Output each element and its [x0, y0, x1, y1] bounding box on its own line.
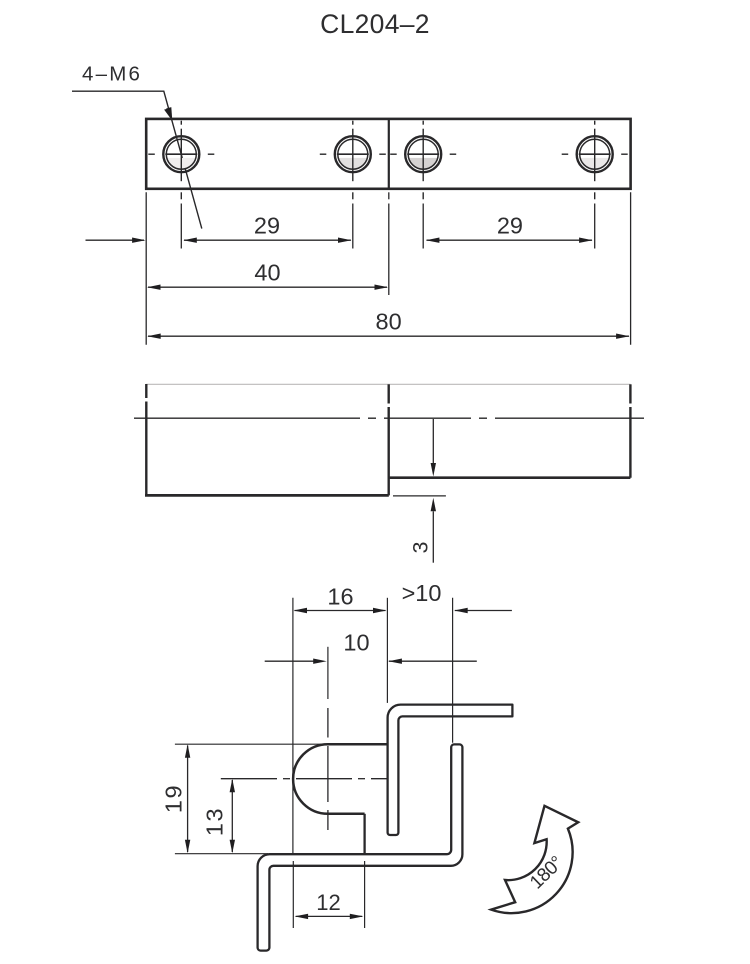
- frame leaf (Z strip): [258, 744, 463, 950]
- leader line 4-M6: [72, 91, 202, 228]
- dimension 16: [295, 610, 386, 612]
- hole 3: [405, 136, 441, 172]
- svg-text:80: 80: [376, 309, 402, 335]
- side view left leaf outline: [145, 384, 389, 496]
- dimension 29 right: [427, 239, 593, 241]
- dimension 19: [161, 744, 191, 853]
- dimension >10: [455, 610, 512, 612]
- knuckle lower edge line: [363, 814, 365, 854]
- svg-text:>10: >10: [402, 580, 442, 606]
- top view plate outline: [146, 119, 630, 189]
- svg-text:3: 3: [409, 541, 433, 553]
- hole 1: [163, 136, 199, 172]
- dimension 3: [393, 419, 446, 563]
- pin horizontal centerline: [221, 778, 387, 780]
- hole 1 centerline: [148, 121, 214, 200]
- svg-text:19: 19: [161, 784, 187, 813]
- svg-text:12: 12: [316, 890, 340, 915]
- svg-text:13: 13: [202, 807, 228, 836]
- hole 4 centerline: [562, 121, 628, 200]
- side view top light edge: [146, 383, 630, 385]
- side view split line: [388, 384, 390, 495]
- outside arrow at left edge: [86, 239, 145, 241]
- svg-text:10: 10: [343, 630, 369, 656]
- extension line y=853.7: [175, 853, 268, 855]
- svg-text:40: 40: [254, 260, 280, 286]
- hole 4: [577, 136, 613, 172]
- dimension 40: [148, 286, 387, 288]
- svg-text:29: 29: [497, 213, 523, 239]
- bottom view extension lines (16 / 10 / >10): [293, 598, 453, 854]
- side view right leaf outline: [389, 384, 631, 477]
- extension line y=744: [175, 743, 330, 745]
- dimension 10: [265, 660, 323, 662]
- svg-text:29: 29: [254, 213, 280, 239]
- top view split line: [388, 119, 390, 189]
- svg-text:CL204–2: CL204–2: [320, 9, 430, 39]
- leader arrowhead: [164, 108, 172, 121]
- dimension 13: [202, 779, 236, 854]
- hole 3 centerline: [390, 121, 456, 200]
- hole 2 centerline: [320, 121, 386, 200]
- hole 2: [335, 136, 371, 172]
- dimension 80: [148, 335, 629, 337]
- svg-text:4–M6: 4–M6: [82, 63, 142, 86]
- knuckle capsule: [293, 744, 387, 814]
- door leaf (L strip): [388, 705, 513, 835]
- svg-text:16: 16: [327, 584, 353, 610]
- rotation arrow 180: [491, 806, 578, 913]
- extension lines top view: [146, 192, 630, 344]
- side view centerline: [134, 417, 644, 419]
- dimension 29 left: [184, 239, 351, 241]
- pin vertical centerline: [327, 708, 329, 830]
- dimension 12: [293, 861, 364, 928]
